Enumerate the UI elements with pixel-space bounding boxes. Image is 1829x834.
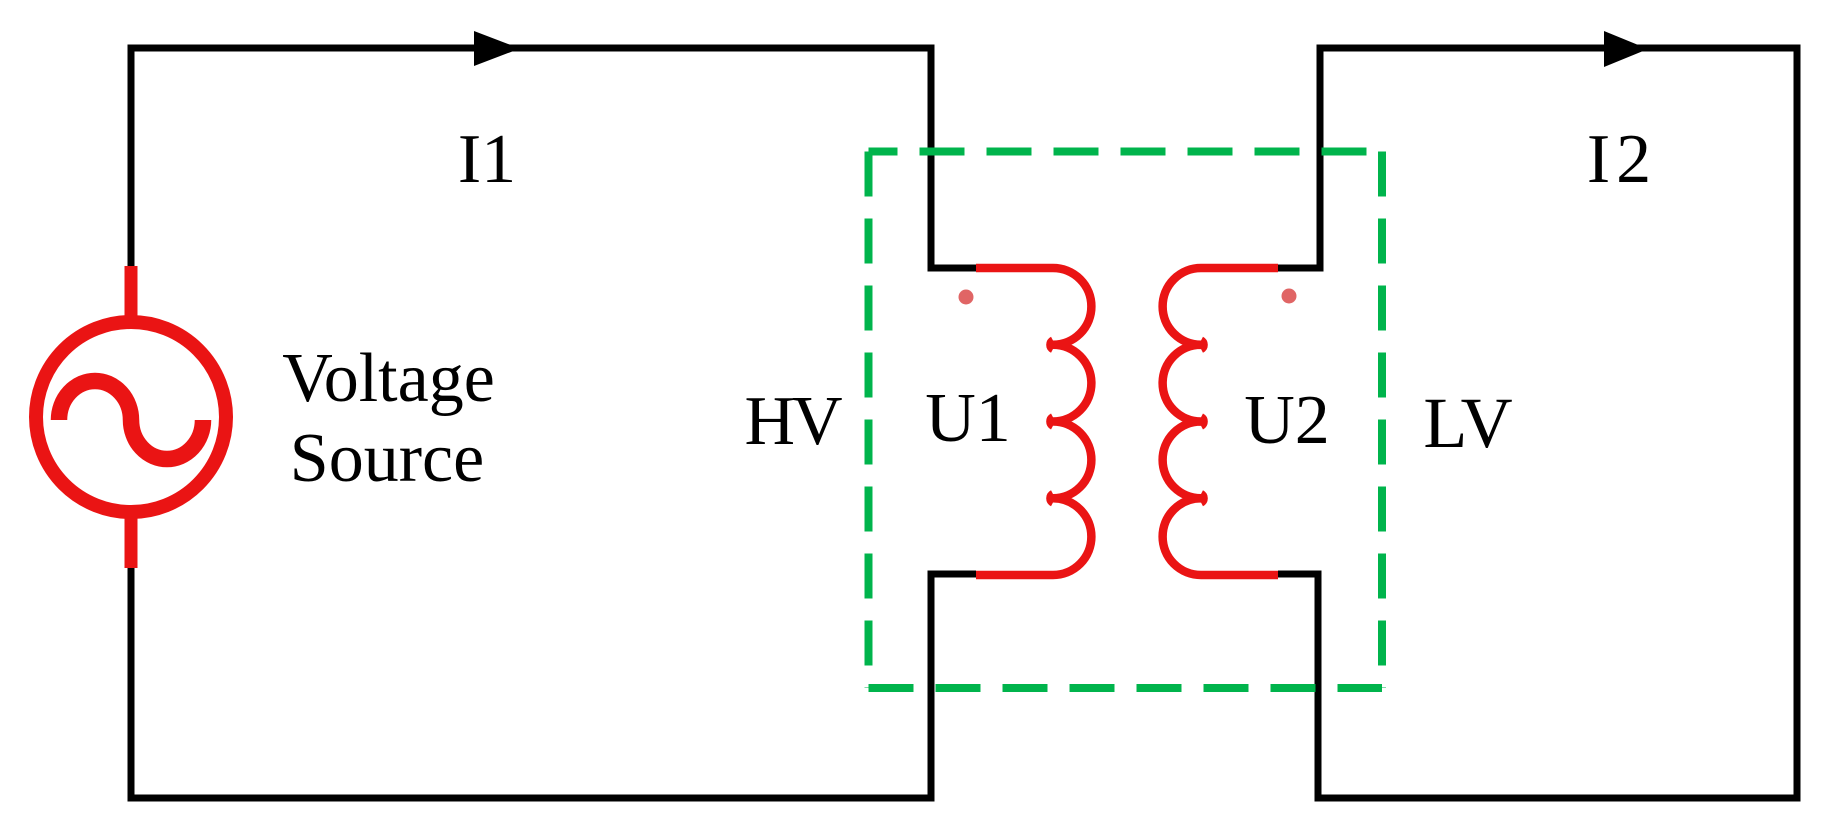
svg-text:I1: I1 <box>458 121 516 198</box>
svg-text:Voltage: Voltage <box>282 340 495 417</box>
svg-text:Source: Source <box>290 420 484 497</box>
svg-text:HV: HV <box>744 383 842 460</box>
svg-text:I2: I2 <box>1587 121 1657 198</box>
svg-text:LV: LV <box>1423 383 1512 463</box>
svg-text:U2: U2 <box>1244 382 1330 459</box>
svg-text:U1: U1 <box>925 380 1011 457</box>
